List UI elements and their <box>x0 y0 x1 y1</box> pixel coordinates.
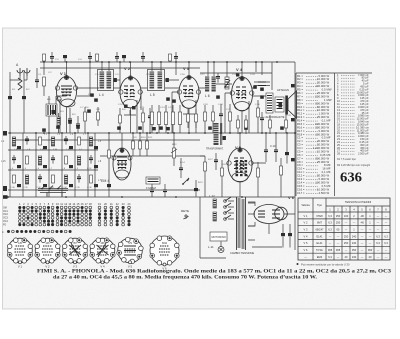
svg-text:—: — <box>361 229 364 232</box>
svg-text:da 27 a 40 m, OC4 da 45,5 a 80: da 27 a 40 m, OC4 da 45,5 a 80 m. Media … <box>53 275 318 281</box>
svg-text:AP MAGN: AP MAGN <box>277 88 289 92</box>
svg-text:R.11: R.11 <box>148 137 153 139</box>
mains entry plug <box>218 242 224 253</box>
capacitor C3 <box>35 68 39 88</box>
svg-text:OC2: OC2 <box>3 214 8 216</box>
tube EM4 (tuning eye) <box>101 148 132 183</box>
svg-text:350: 350 <box>352 248 357 252</box>
resistor R1 <box>43 77 46 96</box>
svg-text:—: — <box>377 249 380 252</box>
svg-text:6,3: 6,3 <box>328 221 332 225</box>
resistor R19 <box>280 158 283 197</box>
svg-text:—: — <box>369 242 372 245</box>
parts list footnotes <box>337 158 371 167</box>
IF transformer T3 <box>205 77 216 99</box>
svg-text:—: — <box>385 256 388 259</box>
svg-text:V 3: V 3 <box>304 228 308 232</box>
svg-text:R.19: R.19 <box>222 164 227 166</box>
wire: cathode bus <box>14 139 200 141</box>
capacitor C20 <box>194 180 198 197</box>
svg-text:—: — <box>345 229 348 232</box>
band switch contact matrix row labels <box>3 207 8 226</box>
svg-text:6,3: 6,3 <box>328 214 332 218</box>
svg-text:V 2: V 2 <box>304 221 308 225</box>
svg-text:—: — <box>369 235 372 238</box>
svg-text:6TE8: 6TE8 <box>316 214 323 218</box>
svg-text:V 1: V 1 <box>304 214 308 218</box>
driver transformer <box>206 123 226 151</box>
wire: left vertical bus <box>10 72 24 133</box>
svg-text:C.21: C.21 <box>226 109 231 111</box>
V5 electrode grid <box>236 160 248 176</box>
band switch contact matrix <box>18 206 130 226</box>
svg-text:C.10: C.10 <box>118 104 123 106</box>
svg-text:C.18: C.18 <box>203 104 208 106</box>
svg-text:-90: -90 <box>360 214 364 218</box>
screen caps C14/C15 <box>264 133 278 162</box>
parts list frame <box>296 73 372 196</box>
tube voltage table frame <box>298 198 390 260</box>
svg-text:250: 250 <box>344 234 349 238</box>
svg-text:—: — <box>329 242 332 245</box>
V4 grid circuit parts <box>216 73 270 91</box>
tube socket V5 bottom view <box>117 237 143 268</box>
wire: AVC bus <box>8 132 295 134</box>
grid coil L1 <box>46 96 57 133</box>
svg-text:Valvola: Valvola <box>301 203 310 207</box>
svg-text:6,3: 6,3 <box>384 241 388 245</box>
svg-text:MOTORINO: MOTORINO <box>212 235 226 239</box>
auxiliary contact row <box>2 230 72 234</box>
oscillator coil L2 <box>57 113 60 133</box>
wire: coil bank verticals <box>10 133 95 197</box>
svg-text:—: — <box>385 215 388 218</box>
svg-text:V 2: V 2 <box>124 66 131 71</box>
parts list column A (resistors/capacitors R1-C35) <box>297 74 332 195</box>
svg-text:C.26: C.26 <box>255 104 260 106</box>
mains coil L11 <box>209 194 216 208</box>
wire: top HT bus <box>40 61 295 63</box>
svg-text:—: — <box>353 222 356 225</box>
svg-text:—: — <box>377 256 380 259</box>
capacitor C1 (antenna series) <box>8 96 12 99</box>
svg-text:L.16: L.16 <box>1 161 6 163</box>
svg-text:6M7: 6M7 <box>317 221 323 225</box>
svg-text:C.17: C.17 <box>200 74 205 76</box>
tube socket V1 bottom view <box>7 238 32 269</box>
tube voltage table header <box>301 200 387 212</box>
chassis terminal blobs <box>3 131 7 191</box>
svg-text:C.19: C.19 <box>218 104 223 106</box>
tube socket V4 bottom view <box>90 238 115 269</box>
svg-text:V 1: V 1 <box>18 264 23 268</box>
wire: rectifier leads <box>248 202 295 234</box>
svg-text:V 5: V 5 <box>128 264 133 268</box>
capacitor C2 <box>22 96 26 99</box>
svg-text:R.10: R.10 <box>141 137 146 139</box>
coupling capacitor C24 <box>214 153 218 170</box>
svg-text:250: 250 <box>344 241 349 245</box>
svg-text:6,3: 6,3 <box>384 234 388 238</box>
screen resistor R2 <box>84 107 87 133</box>
svg-text:C17 =: C17 = <box>297 191 305 195</box>
tube voltage table body <box>304 214 389 259</box>
svg-text:Tipo: Tipo <box>317 203 323 207</box>
svg-text:V 6: V 6 <box>288 195 295 200</box>
electrolytic C16 <box>285 133 289 164</box>
tube socket V3 bottom view <box>62 238 87 269</box>
svg-text:636: 636 <box>340 171 362 186</box>
svg-text:6,3: 6,3 <box>328 255 332 259</box>
tube socket V6 bottom view <box>150 236 179 271</box>
coil margin labels <box>1 141 102 182</box>
EM4 feed resistor R16 <box>107 133 111 197</box>
svg-text:—: — <box>377 229 380 232</box>
resistor R14 <box>146 133 149 156</box>
additional bias resistors <box>97 107 272 134</box>
svg-text:6,3: 6,3 <box>328 228 332 232</box>
svg-text:250: 250 <box>336 221 341 225</box>
diode load resistor R8 <box>204 105 207 133</box>
svg-text:L 6: L 6 <box>205 94 210 98</box>
tone capacitor <box>179 158 183 178</box>
padder capacitors <box>68 108 80 133</box>
svg-text:R.17: R.17 <box>208 159 213 161</box>
wire: ground bus <box>8 189 200 191</box>
svg-text:R2 0,26 962 tipo con impieghi: R2 0,26 962 tipo con impieghi <box>337 164 371 167</box>
junction dots on rails <box>35 61 288 134</box>
heater wires <box>200 197 226 258</box>
svg-text:FO: FO <box>3 225 6 227</box>
svg-text:RETE: RETE <box>181 209 189 213</box>
svg-text:V 6: V 6 <box>304 248 308 252</box>
svg-text:W: W <box>327 191 330 195</box>
svg-text:—: — <box>361 235 364 238</box>
svg-text:240: 240 <box>352 255 357 259</box>
resistor R13 <box>139 133 142 156</box>
svg-text:F.GRAM: F.GRAM <box>146 186 156 190</box>
svg-text:360: 360 <box>368 248 373 252</box>
svg-text:C.36: C.36 <box>87 187 92 189</box>
svg-text:V 3: V 3 <box>73 264 78 268</box>
svg-text:250: 250 <box>336 214 341 218</box>
svg-text:240: 240 <box>352 234 357 238</box>
table footnote <box>297 262 350 266</box>
tube V2 (IF amplifier) <box>119 66 143 108</box>
band switch contact matrix column numbers <box>19 202 131 206</box>
svg-text:—: — <box>345 222 348 225</box>
V2 cathode blobs <box>124 105 136 110</box>
svg-text:L 5: L 5 <box>150 93 155 97</box>
tube V3 (detector/AF) <box>177 66 200 109</box>
svg-text:—: — <box>345 249 348 252</box>
svg-text:—: — <box>361 256 364 259</box>
cathode bits V4 <box>257 100 265 133</box>
wire: V5 row <box>200 156 266 197</box>
band switch arm <box>182 178 189 185</box>
svg-text:365: 365 <box>328 248 333 252</box>
svg-text:C.12: C.12 <box>146 74 151 76</box>
wire: lower mid rail <box>100 155 205 157</box>
motor box (motorino) <box>210 232 227 241</box>
resistor R10 <box>229 104 232 133</box>
tube V1 (6TE8 converter) <box>55 71 77 107</box>
svg-text:6,3: 6,3 <box>376 241 380 245</box>
mains coil L12 <box>208 212 216 249</box>
cambio tensione label <box>230 251 254 255</box>
svg-text:TRASFORMAT.: TRASFORMAT. <box>206 148 224 151</box>
svg-text:C.24: C.24 <box>250 74 255 76</box>
svg-text:—: — <box>361 242 364 245</box>
svg-text:R.15: R.15 <box>198 182 203 184</box>
svg-text:EL41: EL41 <box>316 241 323 245</box>
svg-text:C.30: C.30 <box>10 187 15 189</box>
pickup (fono) <box>146 177 160 190</box>
svg-text:—: — <box>361 249 364 252</box>
tube V4 (output pentode) <box>230 67 254 111</box>
AF grid resistor chain R5-R9 <box>150 105 181 133</box>
svg-text:C.31: C.31 <box>23 187 28 189</box>
AVC resistor R3 <box>119 108 122 133</box>
wire: right vertical bus <box>294 62 296 250</box>
tube V6 (5Y3G rectifier) <box>254 195 295 224</box>
svg-text:4.500: 4.500 <box>319 191 326 195</box>
grid stopper R11 <box>285 113 288 133</box>
svg-text:OC1: OC1 <box>3 211 8 213</box>
svg-text:V 6: V 6 <box>162 267 167 271</box>
svg-text:EM4: EM4 <box>317 255 323 259</box>
svg-text:V 4: V 4 <box>304 234 308 238</box>
svg-text:C.16: C.16 <box>180 74 185 76</box>
antenna <box>10 63 30 90</box>
svg-text:FIMI S. A. - PHONOLA - Mod. 63: FIMI S. A. - PHONOLA - Mod. 636 Radiofon… <box>37 269 392 275</box>
svg-text:C.13: C.13 <box>160 107 165 109</box>
svg-text:V 5: V 5 <box>304 241 308 245</box>
svg-text:6,3: 6,3 <box>376 234 380 238</box>
wire: stage coupling verticals <box>44 62 262 78</box>
coil L7 (choke near V4) <box>225 77 229 89</box>
band switch shorting bar <box>38 186 68 197</box>
terminal block <box>3 195 8 199</box>
svg-text:CAMBIO TENSIONE: CAMBIO TENSIONE <box>230 251 254 255</box>
svg-text:C.15: C.15 <box>168 107 173 109</box>
capacitor C12 <box>219 104 223 133</box>
svg-text:—: — <box>304 256 307 259</box>
wire: chassis ground rail <box>3 196 295 198</box>
junction nodes <box>7 61 296 198</box>
power transformer primary/secondary core <box>237 197 246 250</box>
svg-text:R1 7,5 valori tipo: R1 7,5 valori tipo <box>337 158 356 161</box>
loudspeaker <box>266 88 297 119</box>
svg-text:2.500: 2.500 <box>358 152 365 156</box>
tube electrode dots <box>62 89 246 170</box>
voltage selector arrows <box>224 197 231 220</box>
svg-text:—: — <box>337 256 340 259</box>
svg-text:—: — <box>329 235 332 238</box>
capacitor C21 <box>150 184 154 197</box>
resistor R17 <box>221 160 224 197</box>
svg-text:—: — <box>377 222 380 225</box>
svg-text:ALTOPARLANTE: ALTOPARLANTE <box>266 116 285 119</box>
svg-text:R.12: R.12 <box>172 144 177 146</box>
svg-text:—: — <box>337 242 340 245</box>
parts list column B (padding capacitors) <box>337 73 369 156</box>
svg-text:365: 365 <box>336 248 341 252</box>
volume potentiometer <box>171 133 177 166</box>
svg-text:C.35: C.35 <box>75 187 80 189</box>
mains label (rete) <box>181 209 189 219</box>
svg-text:Può essere sostituita con la v: Può essere sostituita con la valvola U 3… <box>301 262 350 266</box>
IF transformer T1 (L4) <box>98 70 117 98</box>
svg-text:100: 100 <box>344 214 349 218</box>
coupling capacitors and resistors on HT rail <box>43 52 179 62</box>
svg-text:OC3: OC3 <box>3 218 8 220</box>
resistor R12 <box>132 133 135 156</box>
tube socket V2 bottom view <box>35 238 60 269</box>
svg-text:—: — <box>385 229 388 232</box>
IF transformer T2 (L5) <box>148 70 169 98</box>
svg-text:L.12: L.12 <box>209 194 215 198</box>
svg-text:—: — <box>337 235 340 238</box>
svg-text:OM: OM <box>3 207 7 209</box>
transformer taps <box>228 201 282 247</box>
wire: second top bus <box>40 62 272 90</box>
svg-text:-40: -40 <box>360 221 364 225</box>
filter capacitors C30/C31 <box>281 224 292 248</box>
svg-text:C.29: C.29 <box>286 115 291 117</box>
svg-text:V 4: V 4 <box>100 264 105 268</box>
cathode resistor R18 <box>257 162 260 197</box>
svg-text:C.14: C.14 <box>270 144 276 148</box>
wire: interstage links <box>56 62 266 148</box>
svg-text:pF: pF <box>366 152 369 156</box>
svg-text:—: — <box>369 229 372 232</box>
svg-text:L.11: L.11 <box>208 245 214 249</box>
decoupling capacitor blobs <box>42 85 284 131</box>
capacitor C22 <box>163 184 167 197</box>
svg-text:V 2: V 2 <box>45 264 50 268</box>
svg-text:240: 240 <box>352 241 357 245</box>
wire: cathode returns <box>60 92 249 133</box>
svg-text:6810: 6810 <box>162 243 168 245</box>
svg-text:EM 4: EM 4 <box>101 179 109 183</box>
svg-text:TENSIONI AI PIEDINI: TENSIONI AI PIEDINI <box>345 200 372 204</box>
tube V5 (output pentode 2) <box>227 145 253 182</box>
svg-text:5Y3G: 5Y3G <box>316 248 323 252</box>
svg-text:—: — <box>385 249 388 252</box>
component reference labels <box>10 59 291 189</box>
svg-text:—: — <box>385 222 388 225</box>
HT bus bypass capacitors <box>291 84 295 161</box>
svg-text:—: — <box>377 215 380 218</box>
svg-text:OC4: OC4 <box>3 221 8 223</box>
resistor R9 <box>212 105 215 133</box>
svg-text:R.14: R.14 <box>180 162 185 164</box>
svg-text:C.27: C.27 <box>262 117 267 119</box>
band coil bank L6-L9 with trimmers <box>12 136 98 187</box>
wire: coil bank rows <box>8 150 98 170</box>
scan noise overlay <box>0 0 1 1</box>
svg-text:6BC47: 6BC47 <box>316 228 324 232</box>
svg-text:L 4: L 4 <box>99 93 104 97</box>
tube shield diamonds <box>64 75 244 153</box>
svg-text:EL41: EL41 <box>316 234 323 238</box>
grid resistor R15 <box>204 156 207 197</box>
svg-text:V 1: V 1 <box>60 71 67 76</box>
cathode resistor R4 + bypass <box>142 108 153 133</box>
parts list leader dots <box>306 75 354 194</box>
output transformer <box>266 93 273 113</box>
socket internal wiring marks <box>69 243 136 257</box>
